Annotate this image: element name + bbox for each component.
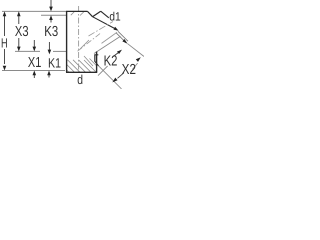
V notch left leg <box>88 11 93 16</box>
bottom face <box>66 71 97 73</box>
K1 bottom arrow <box>48 75 50 78</box>
edge arrow B3 up-right <box>136 57 141 62</box>
double line lower <box>116 33 126 43</box>
X2 label <box>122 64 136 74</box>
V notch right leg to corner apex <box>93 11 101 17</box>
K2 label <box>105 55 117 65</box>
branch upper wall long <box>101 11 109 18</box>
inner bore corner near right wall <box>95 55 99 66</box>
fitting body left wall <box>66 11 68 72</box>
X3 label <box>15 26 28 36</box>
H bottom arrow <box>3 66 7 71</box>
crossing extension line L3 <box>15 50 40 52</box>
X1 top arrow <box>33 40 35 47</box>
X3 bottom arrow <box>17 47 21 52</box>
K3 lower extension line L2 <box>41 14 66 16</box>
X1 bottom arrow <box>33 75 35 79</box>
double line upper (end-face ext) <box>118 31 128 41</box>
X3 top arrow <box>17 11 21 16</box>
H top arrow <box>3 11 7 16</box>
K1 label <box>49 58 61 67</box>
K1 top arrow <box>48 42 50 50</box>
rail G <box>128 44 144 57</box>
X1 label <box>28 57 41 67</box>
K3 label <box>45 26 58 36</box>
X2 arrow down-left <box>112 78 117 83</box>
H dimension line <box>4 13 6 64</box>
right wall <box>96 52 98 73</box>
K2 rail arrow at branch end (down-right) <box>114 27 119 31</box>
branch centerline dash-dot <box>78 34 101 52</box>
K3 bottom arrow (below L2) <box>50 19 52 23</box>
rail S2a <box>102 32 118 43</box>
main centerline (dash-dot vertical) <box>78 6 80 75</box>
H label <box>2 38 7 47</box>
d1 label <box>110 12 120 21</box>
bottom extension line L4 <box>2 70 65 72</box>
X3 dimension line <box>18 13 20 50</box>
tail into edge arrow from lower-left <box>133 63 138 69</box>
branch centerline upper piece <box>89 22 114 37</box>
arrow B2 pointing down-right <box>122 39 127 44</box>
rail A from wall corner <box>94 36 121 53</box>
d label <box>78 75 83 85</box>
branch lower wall long <box>93 17 117 30</box>
hatch lines body interior <box>67 12 97 73</box>
X2 lower tick <box>98 66 108 76</box>
X2 long rail down-right <box>99 66 122 89</box>
K3 top arrow (above L1) <box>50 0 52 8</box>
top extension line L1 <box>2 10 66 12</box>
K2 small arrow near label <box>113 53 119 57</box>
top face <box>66 10 88 12</box>
X2 leader to arrow <box>118 73 125 79</box>
